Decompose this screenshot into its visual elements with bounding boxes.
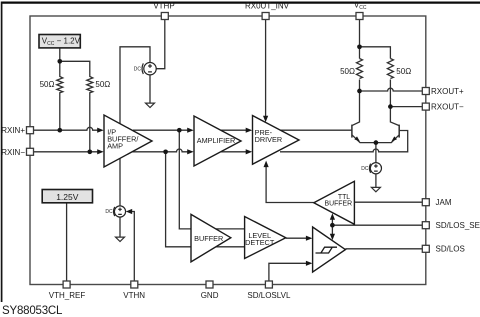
svg-text:JAM: JAM — [436, 198, 452, 207]
svg-text:1.25V: 1.25V — [56, 192, 79, 202]
svg-text:SD/LOSLVL: SD/LOSLVL — [247, 291, 291, 300]
svg-text:GND: GND — [201, 291, 219, 300]
svg-text:SD/LOS_SEL: SD/LOS_SEL — [436, 221, 480, 230]
svg-text:BUFFER: BUFFER — [325, 201, 353, 208]
svg-text:DRIVER: DRIVER — [255, 135, 283, 144]
svg-text:DETECT: DETECT — [245, 238, 275, 247]
svg-text:SD/LOS: SD/LOS — [436, 245, 465, 254]
svg-text:VTHN: VTHN — [123, 291, 145, 300]
svg-text:VTH_REF: VTH_REF — [49, 291, 86, 300]
svg-text:RXIN+: RXIN+ — [1, 126, 25, 135]
svg-text:SY88053CL: SY88053CL — [2, 305, 63, 317]
svg-text:50Ω: 50Ω — [95, 80, 110, 89]
svg-text:50Ω: 50Ω — [340, 67, 355, 76]
svg-text:AMP: AMP — [107, 142, 123, 151]
svg-text:DC: DC — [134, 66, 142, 72]
svg-text:VTHP: VTHP — [153, 2, 174, 11]
svg-text:AMPLIFIER: AMPLIFIER — [197, 136, 236, 145]
svg-text:50Ω: 50Ω — [396, 67, 411, 76]
svg-text:RX0UT_INV: RX0UT_INV — [245, 2, 290, 11]
svg-text:50Ω: 50Ω — [40, 80, 55, 89]
svg-text:RXOUT−: RXOUT− — [431, 102, 464, 111]
svg-text:DC: DC — [105, 209, 113, 215]
svg-text:RXOUT+: RXOUT+ — [431, 87, 464, 96]
svg-text:BUFFER: BUFFER — [194, 234, 223, 243]
svg-text:DC: DC — [361, 166, 369, 172]
svg-text:RXIN−: RXIN− — [1, 148, 25, 157]
